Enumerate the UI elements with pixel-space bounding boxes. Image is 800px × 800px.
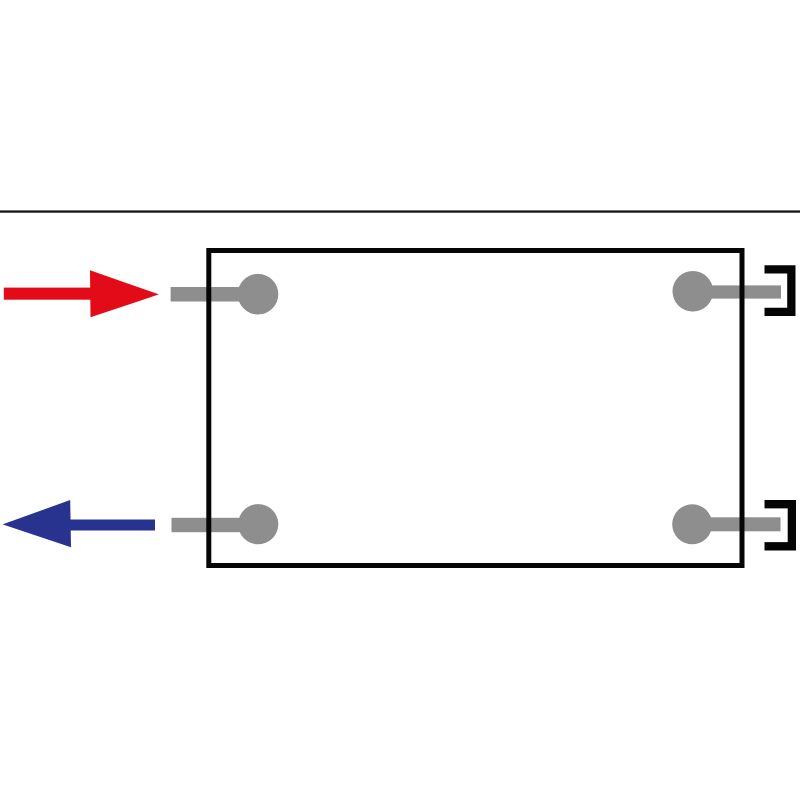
connection boss bottom-right [672, 504, 712, 544]
return arrow (blue, flow out) [3, 500, 155, 547]
connection boss top-left [238, 274, 279, 315]
connection boss bottom-left [238, 504, 278, 544]
supply arrow (red, flow in) [4, 270, 159, 317]
wall line [0, 210, 800, 212]
pipe bottom-right [692, 517, 781, 531]
connection boss top-right [673, 271, 714, 312]
mounting bracket top-right [765, 265, 796, 316]
return pipe bottom-left [172, 518, 259, 532]
radiator body [209, 251, 742, 566]
mounting bracket bottom-right [765, 500, 797, 551]
supply pipe top-left [171, 287, 259, 302]
pipe top-right [692, 285, 781, 298]
